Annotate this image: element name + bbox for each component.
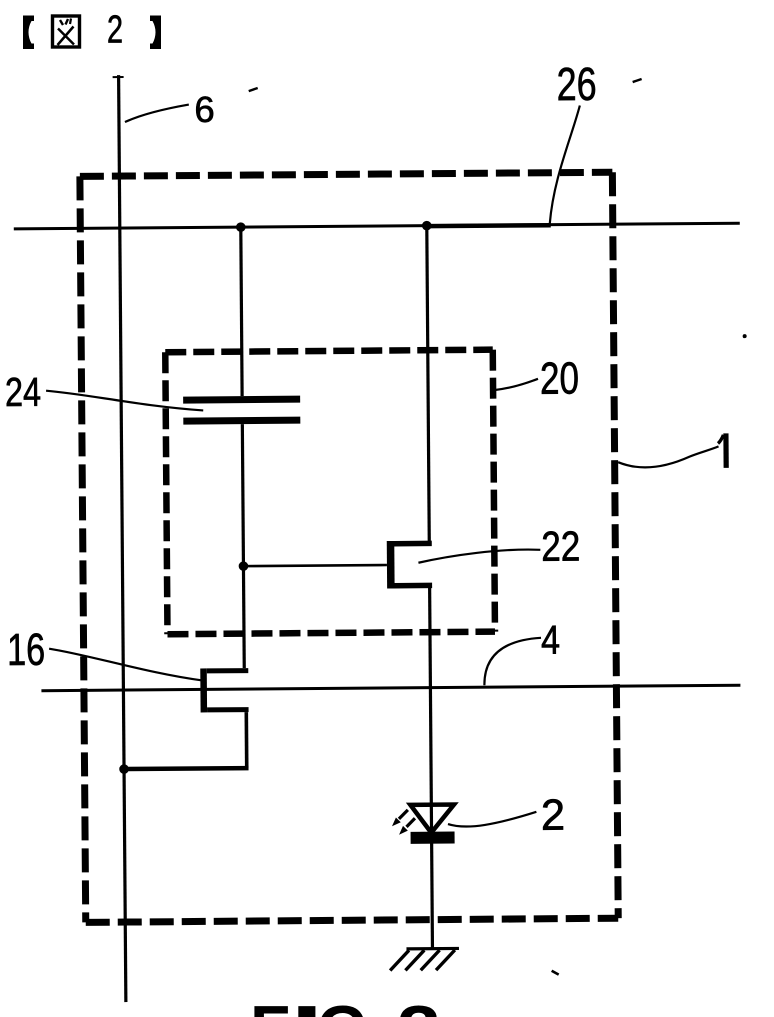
- svg-text:FIG. 2: FIG. 2: [250, 992, 441, 1017]
- svg-text:4: 4: [541, 617, 560, 663]
- svg-text:2: 2: [541, 792, 566, 840]
- svg-text:22: 22: [541, 522, 580, 569]
- svg-text:24: 24: [5, 369, 41, 415]
- svg-text:26: 26: [556, 58, 596, 110]
- svg-text:20: 20: [540, 352, 579, 403]
- svg-text:2: 2: [107, 9, 123, 52]
- svg-text:6: 6: [194, 89, 215, 130]
- svg-text:16: 16: [7, 624, 45, 675]
